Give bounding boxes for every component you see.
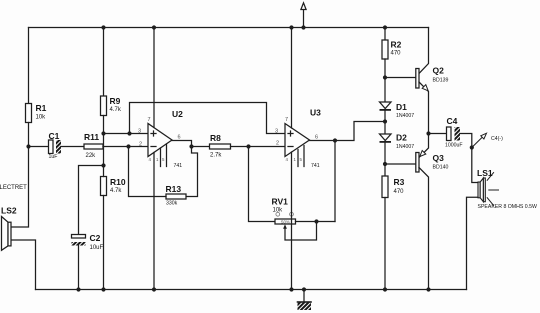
svg-text:U3: U3 (310, 108, 321, 118)
potentiometer RV1 10k (275, 212, 317, 240)
junction bottom rail / ground (302, 287, 306, 291)
wire U3 output down to RV1 (334, 141, 336, 222)
resistor R1 10k (26, 104, 32, 123)
wire U2 output (172, 141, 198, 197)
junction top rail / R2 (383, 25, 387, 29)
svg-text:7: 7 (285, 117, 288, 123)
wire R8 to U3 pin 2 (231, 146, 286, 148)
power arrow (301, 3, 306, 28)
svg-text:2.7k: 2.7k (210, 153, 222, 159)
label LS1 (477, 168, 537, 210)
svg-text:R2: R2 (391, 40, 402, 50)
wire R10 top lead (103, 166, 105, 177)
wire node X down through R10 to ground rail (103, 196, 105, 290)
wire bias node to U3 pin 3 (over U2) (130, 103, 286, 134)
svg-text:D2: D2 (396, 133, 407, 143)
svg-text:1uF: 1uF (49, 154, 58, 160)
label C2 (90, 233, 104, 251)
svg-text:22k: 22k (86, 153, 97, 159)
junction C2 / ground rail (76, 287, 80, 291)
svg-text:5: 5 (300, 157, 303, 162)
junction R1/C1/LS2 (26, 144, 30, 148)
resistor R10 4.7k (101, 177, 107, 196)
junction bias wire / pin3 wire (127, 131, 131, 135)
wire C2 branch (79, 166, 104, 235)
svg-text:U2: U2 (172, 109, 183, 119)
junction ground rail / U3 pin4 (289, 287, 293, 291)
junction Q2 emitter / Q3 emitter / C4 (426, 131, 430, 135)
wire C2 bottom to ground rail (78, 246, 80, 290)
svg-text:741: 741 (174, 163, 183, 169)
wire Q3 base (385, 163, 416, 165)
svg-text:ELECTRET: ELECTRET (0, 185, 27, 191)
wire C1 left (29, 146, 49, 148)
wire U3 output to diodes junction (310, 122, 386, 141)
svg-text:6: 6 (178, 135, 181, 141)
junction R10 / ground rail (101, 287, 105, 291)
op-amp U3 741 (285, 28, 310, 290)
svg-text:3: 3 (275, 129, 278, 135)
label U2 (138, 109, 183, 169)
svg-text:2: 2 (276, 141, 279, 147)
junction top rail / U2 pin7 (152, 25, 156, 29)
label R1 (36, 103, 47, 121)
junction R2 / D1 / Q2 base (383, 75, 387, 79)
wire LS1 bottom to ground rail (467, 197, 479, 289)
wire R9 bottom to node X (103, 116, 105, 166)
svg-text:6: 6 (315, 135, 318, 141)
label R11 (84, 132, 99, 159)
resistor R13 330k (166, 194, 186, 199)
label R13 (166, 184, 182, 207)
svg-text:1: 1 (156, 157, 159, 162)
junction ground rail / U2 pin4 (152, 287, 156, 291)
resistor R8 2.7k (210, 144, 231, 149)
svg-text:R13: R13 (166, 184, 182, 194)
svg-text:1: 1 (294, 157, 297, 162)
wire R2 top to +V rail (384, 28, 386, 41)
svg-text:470: 470 (394, 189, 405, 195)
junction R3 / ground rail (383, 287, 387, 291)
diode D2 1N4007 (380, 134, 392, 143)
label R8 (210, 133, 222, 159)
svg-text:2: 2 (139, 142, 142, 148)
svg-text:LS2: LS2 (1, 206, 17, 216)
svg-text:C4(-): C4(-) (491, 136, 503, 142)
wire Q2 base (385, 77, 416, 79)
label R3 (394, 177, 405, 195)
svg-text:C2: C2 (90, 233, 101, 243)
wire RV1 right to U3 output column (296, 221, 336, 223)
svg-text:10uF: 10uF (90, 245, 104, 251)
wire C1 to R11 (61, 146, 84, 148)
svg-text:1000uF: 1000uF (445, 143, 463, 149)
label LS2 (0, 185, 27, 216)
resistor R11 22k (84, 144, 103, 149)
wire U2 out to R8 (192, 146, 210, 148)
svg-text:50%: 50% (281, 220, 290, 225)
svg-text:741: 741 (311, 163, 320, 169)
transistor Q3 BD140 PNP (416, 134, 429, 290)
svg-text:4: 4 (286, 157, 289, 162)
ground rail (bottom) (36, 289, 467, 291)
wire R1 bottom to node C1 (28, 123, 30, 147)
resistor R3 470 (382, 176, 388, 198)
capacitor C4 1000uF (447, 127, 461, 141)
wire C4 left (429, 133, 447, 135)
svg-text:R10: R10 (110, 177, 126, 187)
label Q2 (433, 66, 449, 84)
svg-text:330k: 330k (166, 201, 178, 207)
wire C4 right to LS1 top (460, 134, 478, 183)
junction U2 output / R8 / R13 (189, 144, 193, 148)
wire node to LS2 top terminal (11, 147, 29, 228)
svg-text:C1: C1 (49, 131, 60, 141)
capacitor C1 1uF (49, 140, 62, 154)
wire R13 left to U2 pin2 (129, 147, 167, 197)
op-amp U2 741 (148, 28, 172, 290)
svg-text:R11: R11 (84, 132, 99, 142)
svg-text:BD140: BD140 (433, 165, 449, 171)
junction top rail / power arrow (301, 25, 305, 29)
svg-text:LS1: LS1 (477, 168, 493, 178)
label C1 (49, 131, 60, 160)
junction D1 / D2 / U3 out (383, 119, 387, 123)
svg-text:BD139: BD139 (433, 78, 449, 84)
wire R1 top to +V rail (28, 28, 30, 104)
svg-text:4.7k: 4.7k (110, 188, 122, 194)
svg-text:1N4007: 1N4007 (396, 113, 414, 119)
label C4 (445, 116, 463, 149)
svg-text:C4: C4 (447, 116, 458, 126)
microphone LS2 ELECTRET (2, 217, 12, 251)
svg-text:SPEAKER 8 OMHS 0.5W: SPEAKER 8 OMHS 0.5W (478, 204, 537, 210)
junction D2 / R3 / Q3 base (383, 162, 387, 166)
wire R3 bottom to ground rail (384, 198, 386, 290)
svg-text:470: 470 (391, 51, 402, 57)
wire D1 to D2 (384, 111, 386, 134)
label Q3 (433, 153, 449, 171)
svg-text:R1: R1 (36, 103, 47, 113)
svg-text:R3: R3 (394, 177, 405, 187)
svg-text:10k: 10k (36, 115, 47, 121)
svg-text:7: 7 (148, 117, 151, 123)
diode D1 1N4007 (380, 102, 392, 111)
resistor R9 4.7k (101, 96, 107, 116)
annotation arrow C4(-) (472, 133, 487, 147)
junction RV1 wiper loop (314, 219, 318, 223)
wire node X column (R9/R10 bias divider) (103, 28, 105, 97)
junction node X / U2 pin3 wire (101, 131, 105, 135)
resistor R2 470 (382, 40, 388, 59)
label R2 (391, 40, 402, 57)
junction top rail / U3 pin7 (289, 25, 293, 29)
junction top rail / R9 (101, 25, 105, 29)
transistor Q2 BD139 NPN (416, 28, 429, 134)
label U3 (275, 108, 321, 170)
svg-text:RV1: RV1 (272, 197, 289, 207)
junction C4(-) label node (470, 145, 474, 149)
speaker LS1 (478, 173, 499, 206)
label R10 (110, 177, 126, 194)
wire RV1 left branch (249, 147, 276, 222)
junction R8 / RV1 branch (246, 144, 250, 148)
svg-text:4: 4 (149, 157, 152, 162)
svg-text:3: 3 (138, 129, 141, 135)
svg-text:Q3: Q3 (433, 153, 445, 163)
svg-text:4.7k: 4.7k (110, 107, 122, 113)
svg-text:1N4007: 1N4007 (396, 144, 414, 150)
wire R11 to U2 pin 2 (103, 146, 148, 148)
junction node X / C2 branch (101, 163, 105, 167)
label D1 (396, 102, 414, 119)
svg-text:R9: R9 (110, 96, 121, 106)
svg-text:D1: D1 (396, 102, 407, 112)
label R9 (110, 96, 122, 113)
junction U3 output / RV1 column (333, 138, 337, 142)
wire node X to U2 pin 3 (104, 133, 149, 135)
junction pin2 wire / R13 branch (126, 144, 130, 148)
junction Q3 collector / ground rail (426, 287, 430, 291)
wire LS2 bottom terminal to ground rail (11, 240, 36, 290)
svg-text:10k: 10k (273, 208, 284, 214)
svg-text:5: 5 (162, 157, 165, 162)
svg-text:R8: R8 (210, 133, 221, 143)
label D2 (396, 133, 414, 151)
label RV1 (272, 197, 290, 225)
power rail +V (top) (29, 27, 429, 29)
capacitor C2 10uF (72, 235, 86, 246)
ground symbol (298, 290, 312, 311)
svg-text:Q2: Q2 (433, 66, 445, 76)
wire D2 to R3 (384, 143, 386, 176)
wire R2 bottom to D1 (384, 59, 386, 102)
